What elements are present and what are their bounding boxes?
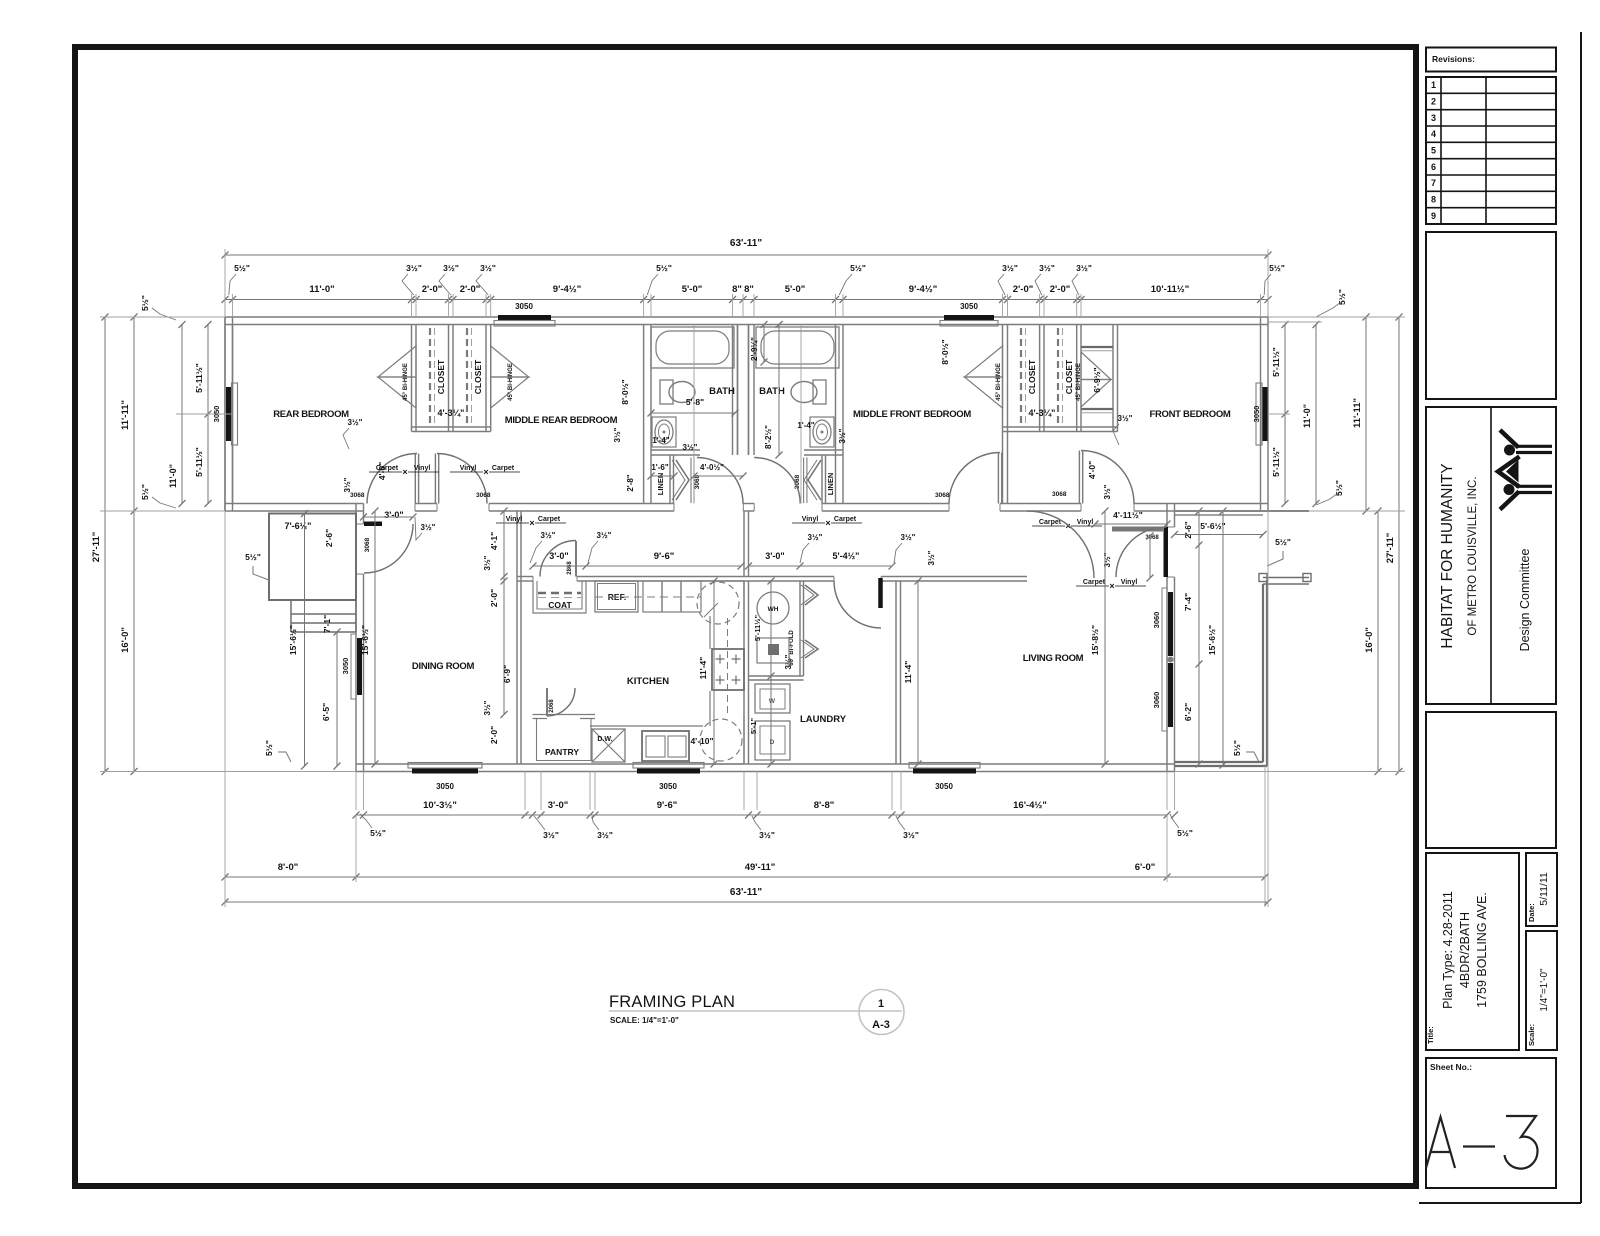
svg-text:49'-11": 49'-11" bbox=[745, 862, 776, 873]
svg-text:2'-6": 2'-6" bbox=[1184, 521, 1193, 538]
svg-text:Vinyl: Vinyl bbox=[414, 465, 431, 472]
svg-text:2'-8": 2'-8" bbox=[626, 474, 635, 491]
svg-text:Carpet: Carpet bbox=[492, 465, 515, 472]
dining west window 3050 bbox=[357, 638, 362, 695]
dim bbox=[651, 475, 674, 477]
svg-text:6'-0": 6'-0" bbox=[1135, 862, 1156, 873]
svg-text:60" BI-FOLD: 60" BI-FOLD bbox=[789, 630, 795, 666]
washer bbox=[755, 684, 790, 713]
svg-text:HABITAT FOR HUMANITY: HABITAT FOR HUMANITY bbox=[1439, 463, 1456, 648]
sink bath 1 bbox=[652, 417, 676, 447]
right porch deck bbox=[1262, 584, 1264, 762]
dim bbox=[336, 632, 338, 766]
door swing bbox=[364, 524, 413, 573]
bedroom band south wall bbox=[225, 503, 364, 505]
svg-text:15'-6½": 15'-6½" bbox=[360, 625, 370, 655]
svg-text:Revisions:: Revisions: bbox=[1432, 54, 1475, 64]
door swing bbox=[540, 541, 576, 577]
deck step rails bbox=[1263, 578, 1309, 585]
svg-text:9'-6": 9'-6" bbox=[657, 800, 678, 811]
svg-text:Carpet: Carpet bbox=[834, 516, 857, 523]
svg-text:5½": 5½" bbox=[1232, 740, 1242, 756]
dim bbox=[770, 581, 772, 764]
svg-text:Carpet: Carpet bbox=[1083, 579, 1106, 586]
kitchen east counter edge bbox=[709, 616, 711, 649]
svg-text:4'-3¼": 4'-3¼" bbox=[438, 408, 465, 418]
svg-text:3½": 3½" bbox=[597, 830, 613, 840]
svg-text:3050: 3050 bbox=[515, 302, 533, 311]
wall bbox=[835, 325, 837, 504]
svg-text:5½": 5½" bbox=[264, 740, 274, 756]
sheet no box bbox=[1426, 1058, 1556, 1188]
svg-text:3050: 3050 bbox=[436, 782, 454, 791]
rear bedroom door leaf bbox=[414, 454, 416, 504]
svg-text:5½": 5½" bbox=[234, 263, 250, 273]
wall bbox=[643, 325, 645, 504]
living east exterior wall bbox=[1166, 504, 1168, 528]
svg-text:BATH: BATH bbox=[709, 386, 735, 397]
door swing bbox=[949, 453, 1000, 504]
svg-text:4BDR/2BATH: 4BDR/2BATH bbox=[1458, 912, 1472, 988]
svg-text:6'-9½": 6'-9½" bbox=[1092, 367, 1102, 392]
coat door bbox=[575, 541, 577, 577]
svg-text:3½": 3½" bbox=[343, 477, 352, 492]
dining entry door from porch bbox=[364, 522, 382, 527]
svg-text:CLOSET: CLOSET bbox=[1064, 359, 1074, 394]
svg-text:SCALE: 1/4"=1'-0": SCALE: 1/4"=1'-0" bbox=[610, 1016, 679, 1025]
dryer bbox=[755, 721, 790, 760]
svg-text:10'-3½": 10'-3½" bbox=[423, 800, 457, 811]
window 3050 top (middle front bedroom) bbox=[944, 315, 994, 321]
dim bbox=[104, 317, 106, 772]
top exterior wall bbox=[225, 316, 1268, 318]
svg-text:2'-9¼": 2'-9¼" bbox=[750, 337, 759, 361]
svg-text:×: × bbox=[529, 518, 534, 528]
corner cabinet carousel (dashed circles) bbox=[697, 582, 739, 624]
wall bbox=[732, 325, 734, 456]
svg-text:5: 5 bbox=[1431, 146, 1436, 156]
svg-text:11'-0": 11'-0" bbox=[1302, 404, 1312, 428]
svg-text:1'-6": 1'-6" bbox=[651, 463, 668, 472]
laundry door bbox=[878, 578, 883, 608]
habitat box bbox=[1426, 407, 1556, 704]
svg-text:5½": 5½" bbox=[245, 552, 261, 562]
empty box 2 bbox=[1426, 712, 1556, 848]
svg-text:3½": 3½" bbox=[421, 523, 436, 532]
wall bbox=[748, 325, 750, 456]
svg-text:3'-0": 3'-0" bbox=[765, 551, 784, 561]
dim bbox=[503, 511, 505, 715]
svg-text:BATH: BATH bbox=[759, 386, 785, 397]
window 3050 bottom (dining) bbox=[412, 768, 478, 774]
wall bbox=[411, 325, 413, 432]
toilet bath 2 bbox=[791, 382, 817, 403]
big A-3 sheet number bbox=[1426, 1117, 1455, 1168]
svg-text:15'-8½": 15'-8½" bbox=[1090, 625, 1100, 655]
svg-text:5½": 5½" bbox=[1269, 263, 1285, 273]
svg-text:3050: 3050 bbox=[960, 302, 978, 311]
svg-text:4'-1": 4'-1" bbox=[489, 532, 499, 550]
svg-text:3½": 3½" bbox=[1103, 552, 1112, 567]
svg-text:3050: 3050 bbox=[341, 658, 350, 675]
svg-text:5'-0": 5'-0" bbox=[785, 284, 806, 295]
dim bbox=[1284, 325, 1286, 504]
bi-fold door bbox=[676, 460, 689, 500]
window 3050 right wall bbox=[1263, 387, 1268, 441]
dim bbox=[1315, 325, 1317, 504]
wall bbox=[799, 581, 801, 676]
dim bbox=[917, 581, 919, 764]
svg-text:15'-6½": 15'-6½" bbox=[1207, 625, 1217, 655]
svg-text:DINING ROOM: DINING ROOM bbox=[412, 661, 475, 672]
svg-text:5'-11½": 5'-11½" bbox=[753, 614, 762, 641]
wall bbox=[1002, 325, 1004, 432]
living west wall bbox=[895, 581, 897, 764]
svg-text:45° BI-HINGE: 45° BI-HINGE bbox=[996, 363, 1002, 401]
svg-text:2'-0": 2'-0" bbox=[489, 726, 499, 744]
svg-text:11'-0": 11'-0" bbox=[168, 464, 178, 488]
dim bbox=[1175, 534, 1264, 536]
svg-text:D: D bbox=[770, 739, 775, 746]
door swing bbox=[834, 581, 881, 628]
dim bbox=[1104, 511, 1106, 764]
svg-text:3½": 3½" bbox=[808, 533, 823, 542]
wall bbox=[1002, 432, 1004, 504]
stove bbox=[712, 649, 744, 690]
svg-text:15'-6½": 15'-6½" bbox=[288, 625, 298, 655]
svg-text:5½": 5½" bbox=[1334, 480, 1344, 496]
svg-text:3½": 3½" bbox=[543, 830, 559, 840]
svg-text:3½": 3½" bbox=[613, 427, 622, 442]
dim bbox=[1198, 511, 1200, 764]
dim bbox=[225, 254, 1268, 256]
svg-text:3068: 3068 bbox=[935, 492, 950, 499]
svg-text:FRAMING PLAN: FRAMING PLAN bbox=[609, 993, 735, 1011]
svg-text:5½": 5½" bbox=[140, 484, 150, 500]
dim bbox=[749, 565, 893, 567]
door swing bbox=[1027, 511, 1094, 578]
svg-text:×: × bbox=[825, 518, 830, 528]
svg-text:16'-4½": 16'-4½" bbox=[1013, 800, 1047, 811]
svg-text:10'-11½": 10'-11½" bbox=[1151, 284, 1189, 295]
svg-text:5'-0": 5'-0" bbox=[682, 284, 703, 295]
dim bbox=[304, 514, 306, 767]
svg-text:5'-11½": 5'-11½" bbox=[1271, 347, 1281, 377]
svg-text:5½": 5½" bbox=[1177, 828, 1193, 838]
wall bbox=[749, 675, 804, 677]
svg-text:3068: 3068 bbox=[694, 474, 701, 489]
svg-text:8'-0½": 8'-0½" bbox=[620, 379, 630, 404]
closet bi-fold doors (dashed) bbox=[429, 328, 431, 425]
svg-text:3½": 3½" bbox=[903, 830, 919, 840]
svg-text:8": 8" bbox=[732, 284, 742, 295]
svg-text:3½": 3½" bbox=[838, 428, 847, 443]
svg-text:8: 8 bbox=[1431, 195, 1436, 205]
svg-text:1/4"=1'-0": 1/4"=1'-0" bbox=[1539, 968, 1550, 1012]
svg-text:7: 7 bbox=[1431, 178, 1436, 188]
svg-text:45° BI-HINGE: 45° BI-HINGE bbox=[403, 363, 409, 401]
wall bbox=[1112, 325, 1114, 432]
dim bbox=[1398, 317, 1400, 772]
wall bbox=[1076, 325, 1078, 432]
svg-text:CLOSET: CLOSET bbox=[473, 359, 483, 394]
svg-text:2'-0": 2'-0" bbox=[422, 284, 443, 295]
svg-text:Carpet: Carpet bbox=[538, 516, 561, 523]
svg-text:27'-11": 27'-11" bbox=[91, 532, 102, 563]
svg-text:45° BI-HINGE: 45° BI-HINGE bbox=[508, 363, 514, 401]
dishwasher bbox=[592, 729, 625, 762]
dim bbox=[225, 299, 1268, 301]
svg-text:3½": 3½" bbox=[1076, 263, 1092, 273]
front bedroom closet shelves bbox=[1081, 346, 1113, 348]
svg-text:4'-10": 4'-10" bbox=[690, 736, 713, 746]
svg-text:3½": 3½" bbox=[443, 263, 459, 273]
window 3050 top (middle rear bedroom) bbox=[498, 315, 551, 321]
svg-text:5½": 5½" bbox=[370, 828, 386, 838]
svg-text:Date:: Date: bbox=[1527, 903, 1536, 922]
pantry bbox=[533, 715, 596, 719]
svg-text:MIDDLE FRONT BEDROOM: MIDDLE FRONT BEDROOM bbox=[853, 409, 971, 420]
svg-text:7'-1": 7'-1" bbox=[322, 615, 332, 633]
counter dashed line bbox=[727, 618, 729, 716]
hall south wall bbox=[517, 576, 533, 578]
title box bbox=[1426, 853, 1519, 1050]
svg-text:4'-0": 4'-0" bbox=[1087, 461, 1097, 479]
svg-text:5/11/11: 5/11/11 bbox=[1538, 872, 1550, 906]
left exterior wall bbox=[224, 317, 226, 511]
svg-text:8'-8": 8'-8" bbox=[814, 800, 835, 811]
svg-text:2'-6": 2'-6" bbox=[324, 529, 334, 547]
dim bbox=[763, 325, 765, 363]
svg-text:3050: 3050 bbox=[935, 782, 953, 791]
living east exterior door bbox=[1112, 527, 1163, 532]
svg-text:16'-0": 16'-0" bbox=[120, 627, 131, 653]
dim bbox=[1149, 536, 1151, 578]
empty box 1 bbox=[1426, 232, 1556, 399]
dim bbox=[533, 565, 741, 567]
45 bi-hinge door bbox=[491, 346, 529, 377]
svg-text:Vinyl: Vinyl bbox=[1077, 519, 1094, 526]
svg-text:3½": 3½" bbox=[597, 531, 612, 540]
svg-text:3060: 3060 bbox=[1152, 612, 1161, 629]
svg-text:6'-5": 6'-5" bbox=[321, 703, 331, 721]
svg-text:6'-9": 6'-9" bbox=[502, 665, 512, 683]
svg-text:3'-0": 3'-0" bbox=[548, 800, 569, 811]
bottom exterior wall bbox=[356, 763, 1175, 765]
svg-text:2: 2 bbox=[1431, 97, 1436, 107]
detail reference circle bbox=[859, 990, 904, 1035]
svg-text:5½": 5½" bbox=[1337, 289, 1347, 305]
dim bbox=[374, 511, 376, 764]
svg-text:3½": 3½" bbox=[759, 830, 775, 840]
svg-text:3'-0": 3'-0" bbox=[384, 510, 403, 520]
wall bbox=[821, 455, 823, 504]
svg-text:2068: 2068 bbox=[549, 699, 555, 713]
svg-text:3½": 3½" bbox=[406, 263, 422, 273]
svg-text:3060: 3060 bbox=[1152, 692, 1161, 709]
svg-text:Vinyl: Vinyl bbox=[1121, 579, 1138, 586]
svg-text:3½": 3½" bbox=[1039, 263, 1055, 273]
svg-text:REAR BEDROOM: REAR BEDROOM bbox=[273, 409, 349, 420]
svg-text:3050: 3050 bbox=[659, 782, 677, 791]
svg-text:5'-4½": 5'-4½" bbox=[833, 551, 860, 561]
deck north edge bbox=[1175, 510, 1310, 512]
door swing bbox=[547, 688, 575, 716]
svg-text:KITCHEN: KITCHEN bbox=[627, 676, 669, 687]
svg-text:Plan Type: 4.28-2011: Plan Type: 4.28-2011 bbox=[1441, 891, 1455, 1009]
svg-text:8": 8" bbox=[744, 284, 754, 295]
svg-text:3½": 3½" bbox=[1118, 414, 1133, 423]
bath 2 door swing bbox=[754, 458, 800, 504]
wall bbox=[448, 325, 450, 432]
svg-text:4'-0": 4'-0" bbox=[377, 462, 387, 480]
window 3050 bottom (kitchen) bbox=[637, 768, 700, 774]
bi-fold door bbox=[805, 585, 818, 605]
dim bbox=[225, 901, 1268, 903]
dim bbox=[1222, 511, 1224, 765]
svg-text:3½": 3½" bbox=[480, 263, 496, 273]
svg-text:9: 9 bbox=[1431, 211, 1436, 221]
door swing bbox=[1116, 527, 1166, 577]
svg-text:3½": 3½" bbox=[901, 533, 916, 542]
45 bi-hinge door bbox=[965, 346, 1003, 377]
svg-text:3½": 3½" bbox=[1103, 484, 1112, 499]
svg-text:63'-11": 63'-11" bbox=[730, 887, 762, 898]
svg-text:5'-11½": 5'-11½" bbox=[194, 363, 204, 393]
svg-text:WH: WH bbox=[768, 606, 779, 613]
svg-text:3½": 3½" bbox=[483, 555, 492, 570]
bi-fold door bbox=[808, 460, 821, 500]
living east wall windows 3060 pair bbox=[1168, 592, 1173, 656]
svg-text:OF METRO LOUISVILLE, INC.: OF METRO LOUISVILLE, INC. bbox=[1467, 476, 1479, 635]
dim bbox=[713, 581, 715, 764]
svg-text:2'-0": 2'-0" bbox=[489, 589, 499, 607]
svg-text:LINEN: LINEN bbox=[826, 473, 835, 496]
svg-text:A-3: A-3 bbox=[872, 1019, 890, 1031]
pantry door bbox=[546, 688, 548, 716]
refrigerator bbox=[595, 581, 638, 612]
title strip right boundary bbox=[1580, 32, 1582, 1203]
svg-text:16'-0": 16'-0" bbox=[1364, 627, 1375, 653]
wall bbox=[651, 449, 700, 451]
svg-text:MIDDLE REAR BEDROOM: MIDDLE REAR BEDROOM bbox=[505, 415, 618, 426]
revisions table bbox=[1426, 77, 1556, 224]
svg-text:2'-0": 2'-0" bbox=[460, 284, 481, 295]
svg-text:6: 6 bbox=[1431, 162, 1436, 172]
sheet border outer bbox=[75, 47, 1416, 1186]
svg-text:9'-4½": 9'-4½" bbox=[553, 284, 581, 295]
wall bbox=[1039, 325, 1041, 432]
svg-text:Vinyl: Vinyl bbox=[460, 465, 477, 472]
svg-text:5½": 5½" bbox=[656, 263, 672, 273]
svg-text:Carpet: Carpet bbox=[1039, 519, 1062, 526]
kitchen sink bbox=[642, 731, 689, 761]
svg-text:Scale:: Scale: bbox=[1527, 1024, 1536, 1046]
svg-text:5'-11½": 5'-11½" bbox=[1271, 447, 1281, 477]
habitat for humanity logo bbox=[1498, 430, 1552, 510]
door swing bbox=[367, 454, 417, 504]
door swing bbox=[1081, 451, 1134, 504]
svg-text:3068: 3068 bbox=[364, 537, 371, 552]
svg-text:3½": 3½" bbox=[683, 443, 698, 452]
svg-text:3½": 3½" bbox=[483, 700, 492, 715]
svg-text:1'-4": 1'-4" bbox=[652, 436, 669, 445]
svg-text:1: 1 bbox=[878, 998, 884, 1010]
date box bbox=[1526, 853, 1557, 926]
dim bbox=[225, 876, 1265, 878]
window 3050 left wall bbox=[226, 387, 231, 441]
svg-text:8'-2½": 8'-2½" bbox=[764, 425, 773, 449]
porch steps bbox=[291, 600, 356, 632]
svg-text:11'-4": 11'-4" bbox=[698, 657, 708, 680]
svg-text:×: × bbox=[1109, 581, 1114, 591]
svg-text:Sheet No.:: Sheet No.: bbox=[1430, 1062, 1472, 1072]
svg-text:D.W.: D.W. bbox=[597, 736, 612, 743]
svg-text:5½": 5½" bbox=[850, 263, 866, 273]
svg-text:Vinyl: Vinyl bbox=[802, 516, 819, 523]
dim bbox=[651, 412, 735, 414]
dim bbox=[356, 814, 1167, 816]
svg-text:9'-4½": 9'-4½" bbox=[909, 284, 937, 295]
toilet bath 1 bbox=[669, 382, 695, 403]
svg-text:11'-11": 11'-11" bbox=[120, 400, 131, 430]
kitchen bottom counter edge bbox=[590, 725, 703, 727]
svg-text:2'-0": 2'-0" bbox=[1013, 284, 1034, 295]
svg-text:8'-0½": 8'-0½" bbox=[940, 339, 950, 364]
svg-text:45° BI-HINGE: 45° BI-HINGE bbox=[1076, 363, 1082, 401]
svg-text:×: × bbox=[402, 467, 407, 477]
svg-text:CLOSET: CLOSET bbox=[1027, 359, 1037, 394]
kitchen upper cabinets bbox=[643, 581, 701, 612]
kitchen east / laundry west wall bbox=[743, 581, 745, 764]
kitchen west wall bbox=[516, 511, 518, 764]
rear closets south wall bbox=[412, 426, 491, 428]
dining west exterior wall bbox=[355, 504, 357, 525]
dim bbox=[1377, 511, 1379, 772]
svg-text:3068: 3068 bbox=[1052, 491, 1067, 498]
wall bbox=[804, 449, 843, 451]
svg-text:3050: 3050 bbox=[1252, 406, 1261, 423]
45 bi-hinge door bbox=[378, 346, 416, 377]
svg-text:PANTRY: PANTRY bbox=[545, 747, 579, 757]
dim bbox=[133, 317, 135, 772]
svg-text:2'-0": 2'-0" bbox=[1050, 284, 1071, 295]
wall bbox=[485, 325, 487, 432]
svg-text:COAT: COAT bbox=[548, 600, 572, 610]
dim bbox=[1365, 317, 1367, 511]
svg-text:6'-2": 6'-2" bbox=[1183, 703, 1193, 721]
svg-text:7'-6½": 7'-6½" bbox=[285, 521, 312, 531]
svg-text:5'-8": 5'-8" bbox=[686, 397, 704, 407]
svg-text:5'-6½": 5'-6½" bbox=[1200, 521, 1225, 531]
window 3050 bottom (living) bbox=[913, 768, 976, 774]
coat closet bbox=[533, 581, 586, 613]
svg-text:3½": 3½" bbox=[927, 550, 936, 565]
svg-text:7'-4": 7'-4" bbox=[1183, 593, 1193, 611]
svg-text:×: × bbox=[483, 467, 488, 477]
svg-text:LAUNDRY: LAUNDRY bbox=[800, 714, 847, 725]
svg-text:LIVING ROOM: LIVING ROOM bbox=[1023, 653, 1084, 664]
svg-text:1'-4": 1'-4" bbox=[797, 421, 814, 430]
svg-text:FRONT BEDROOM: FRONT BEDROOM bbox=[1149, 409, 1230, 420]
svg-text:11'-4": 11'-4" bbox=[903, 661, 913, 684]
svg-text:4'-0½": 4'-0½" bbox=[700, 463, 724, 472]
svg-text:2868: 2868 bbox=[567, 561, 573, 575]
svg-text:27'-11": 27'-11" bbox=[1385, 533, 1396, 564]
middle rear bedroom door leaf bbox=[434, 454, 436, 504]
svg-text:4'-3¼": 4'-3¼" bbox=[1029, 408, 1056, 418]
laundry stand bbox=[757, 638, 789, 663]
